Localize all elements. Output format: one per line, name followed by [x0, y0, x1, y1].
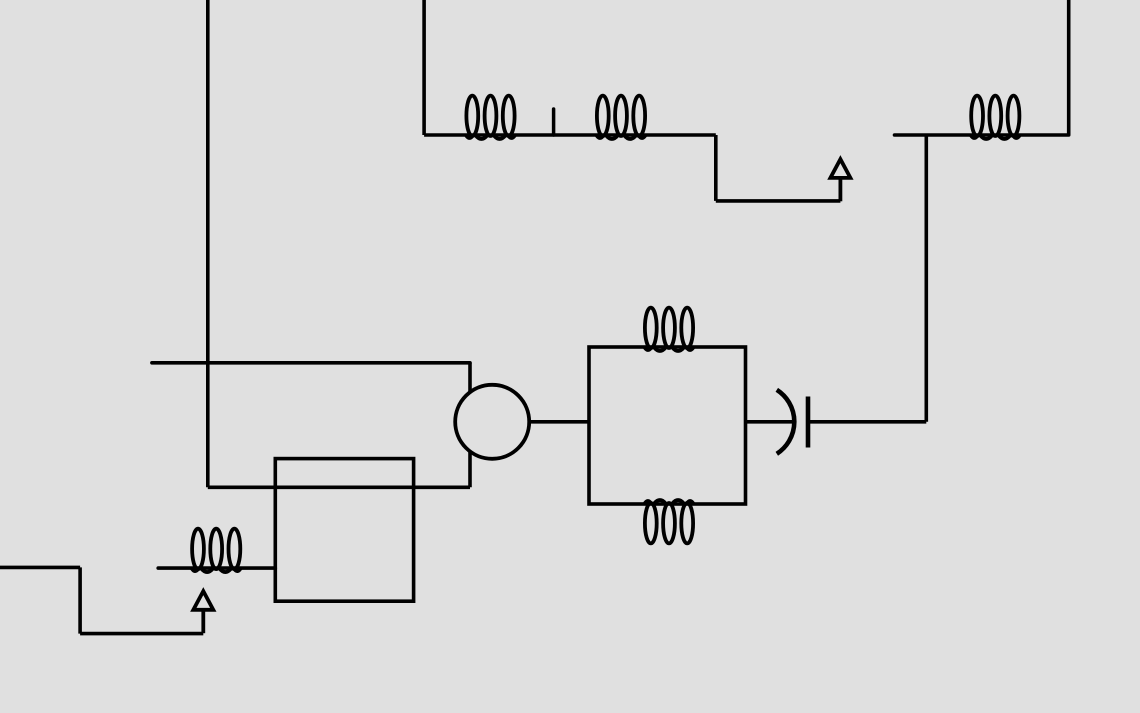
wire: top-right vertical to top edge	[1067, 0, 1071, 135]
wire: circle to box U1	[531, 420, 589, 424]
wire: top horizontal with inductors	[424, 133, 716, 137]
box U3 (lower rectangle)	[275, 459, 413, 602]
inductor L6	[192, 529, 241, 572]
capacitor C1 straight plate	[806, 397, 811, 448]
wire: down from top horizontal	[714, 135, 718, 201]
wire: stub horizontal left open end	[152, 361, 470, 365]
arrow symbol A2	[193, 591, 213, 633]
wire: bottom-left vertical	[78, 567, 82, 633]
wire: capacitor right lead	[808, 420, 926, 424]
wire: horizontal through lower box	[208, 485, 470, 489]
wire: bottom-left horizontal from edge	[0, 566, 80, 570]
circle U2 (bubble over wire)	[455, 385, 529, 459]
wire: top-left long vertical	[206, 0, 210, 487]
wire: top mid vertical	[422, 0, 426, 135]
wire: right long vertical	[924, 135, 928, 422]
inductor L3	[971, 96, 1020, 139]
inductor L1	[466, 96, 515, 139]
inductor L4 (top edge of U1)	[644, 308, 693, 351]
wire: bottom horizontal to arrow 2	[80, 632, 203, 636]
wire: capacitor left lead	[746, 420, 795, 424]
inductor L2	[596, 96, 645, 139]
box U1 (middle rectangle)	[589, 347, 746, 504]
wire: top-right horizontal	[895, 133, 1069, 137]
wire: vertical through circle	[468, 363, 472, 488]
arrow symbol A1	[830, 159, 850, 201]
capacitor C1 curved plate	[777, 390, 795, 454]
inductor L5 (bottom edge of U1, loops down)	[644, 500, 693, 543]
wire: horizontal to arrow 1	[716, 199, 841, 203]
tap tick	[552, 109, 556, 135]
wire: inductor L6 lead	[158, 566, 275, 570]
